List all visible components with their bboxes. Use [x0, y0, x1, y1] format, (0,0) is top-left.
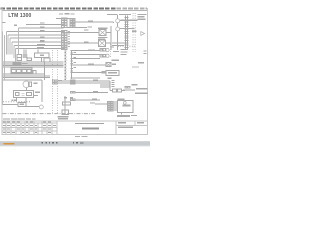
svg-text:LTM 1300: LTM 1300 — [8, 13, 31, 19]
